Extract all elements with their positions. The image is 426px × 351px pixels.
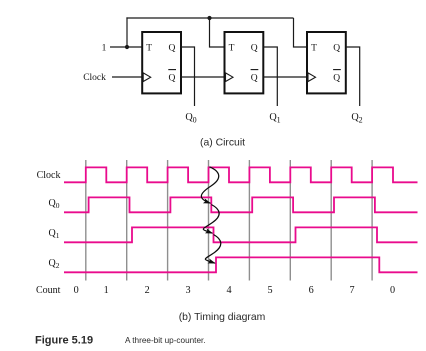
grid line count boundary 4: [208, 160, 210, 281]
arrow Clock edge to Q0 edge: [201, 167, 218, 203]
svg-text:Count: Count: [36, 285, 61, 296]
svg-text:Q1: Q1: [269, 112, 280, 125]
wire Qbar of U1 to clk of U2: [181, 76, 225, 78]
figure caption Figure 5.19 A three-bit up-counter: [35, 335, 206, 347]
svg-text:Q1: Q1: [49, 228, 60, 240]
svg-text:Q: Q: [169, 43, 176, 53]
waveform Q1: [64, 227, 418, 242]
grid line count boundary 3: [167, 160, 169, 281]
flip-flop U3 box: [307, 32, 346, 93]
svg-text:(a) Circuit: (a) Circuit: [200, 138, 245, 149]
wire drop from top bus to T input of U2: [210, 18, 225, 47]
U2 pin label Qbar with overline: [251, 70, 259, 84]
node junction dot on 1-wire: [125, 45, 129, 49]
svg-text:Q2: Q2: [351, 112, 362, 125]
grid line count boundary 6: [289, 160, 291, 281]
arrow Q1 edge to Q2 edge: [205, 235, 220, 264]
svg-text:(b) Timing diagram: (b) Timing diagram: [179, 312, 266, 323]
grid line count boundary 7: [330, 160, 332, 281]
svg-text:Q: Q: [251, 43, 258, 53]
wire Qbar of U2 to clk of U3: [263, 76, 307, 78]
svg-text:4: 4: [226, 285, 231, 296]
waveform Q2: [64, 257, 418, 272]
wire riser from 1-node to top bus: [126, 17, 128, 47]
svg-text:Q2: Q2: [49, 258, 60, 270]
svg-text:T: T: [229, 43, 235, 53]
svg-text:Q: Q: [333, 43, 340, 53]
grid line count boundary 8: [371, 160, 373, 281]
svg-text:Q: Q: [251, 73, 258, 83]
node junction dot on top bus: [207, 16, 211, 20]
svg-text:0: 0: [74, 285, 79, 296]
svg-text:T: T: [311, 43, 317, 53]
svg-text:Q0: Q0: [49, 198, 60, 210]
waveform Q0: [64, 197, 418, 212]
flip-flop U2 box: [225, 32, 264, 93]
svg-text:Q: Q: [169, 73, 176, 83]
waveform Clock: [64, 167, 418, 182]
svg-text:3: 3: [186, 285, 191, 296]
svg-text:Clock: Clock: [83, 73, 106, 83]
svg-text:2: 2: [145, 285, 150, 296]
wire Q output of U3 down to Q2: [346, 47, 360, 106]
svg-text:Q: Q: [333, 73, 340, 83]
svg-text:6: 6: [309, 285, 314, 296]
U1 pin label Qbar with overline: [168, 70, 176, 84]
svg-text:5: 5: [267, 285, 272, 296]
wire Q output of U1 down to Q0: [181, 47, 195, 106]
svg-text:A three-bit up-counter.: A three-bit up-counter.: [125, 336, 206, 345]
wire drop from top bus to T input of U3: [294, 18, 308, 47]
grid line count boundary 1: [85, 160, 87, 281]
U1 clock edge triangle: [143, 73, 151, 82]
grid line count boundary 5: [248, 160, 250, 281]
svg-text:0: 0: [390, 285, 395, 296]
U2 clock edge triangle: [226, 73, 234, 82]
svg-text:Q0: Q0: [185, 112, 196, 125]
svg-text:7: 7: [349, 285, 354, 296]
wire Clock to clk input of U1: [112, 76, 142, 78]
U3 pin label Qbar with overline: [333, 70, 341, 84]
wire from constant 1 to T input of U1: [110, 46, 142, 48]
flip-flop U1 box: [142, 32, 181, 93]
wire Q output of U2 down to Q1: [263, 47, 277, 106]
grid line count boundary 2: [126, 160, 128, 281]
svg-text:1: 1: [102, 43, 107, 53]
arrow Q0 edge to Q1 edge: [203, 205, 219, 234]
svg-text:Figure 5.19: Figure 5.19: [35, 335, 93, 347]
U3 clock edge triangle: [308, 73, 316, 82]
svg-text:1: 1: [104, 285, 109, 296]
svg-text:T: T: [146, 43, 152, 53]
wire top bus carrying T=1: [126, 17, 293, 19]
svg-text:Clock: Clock: [37, 170, 61, 181]
